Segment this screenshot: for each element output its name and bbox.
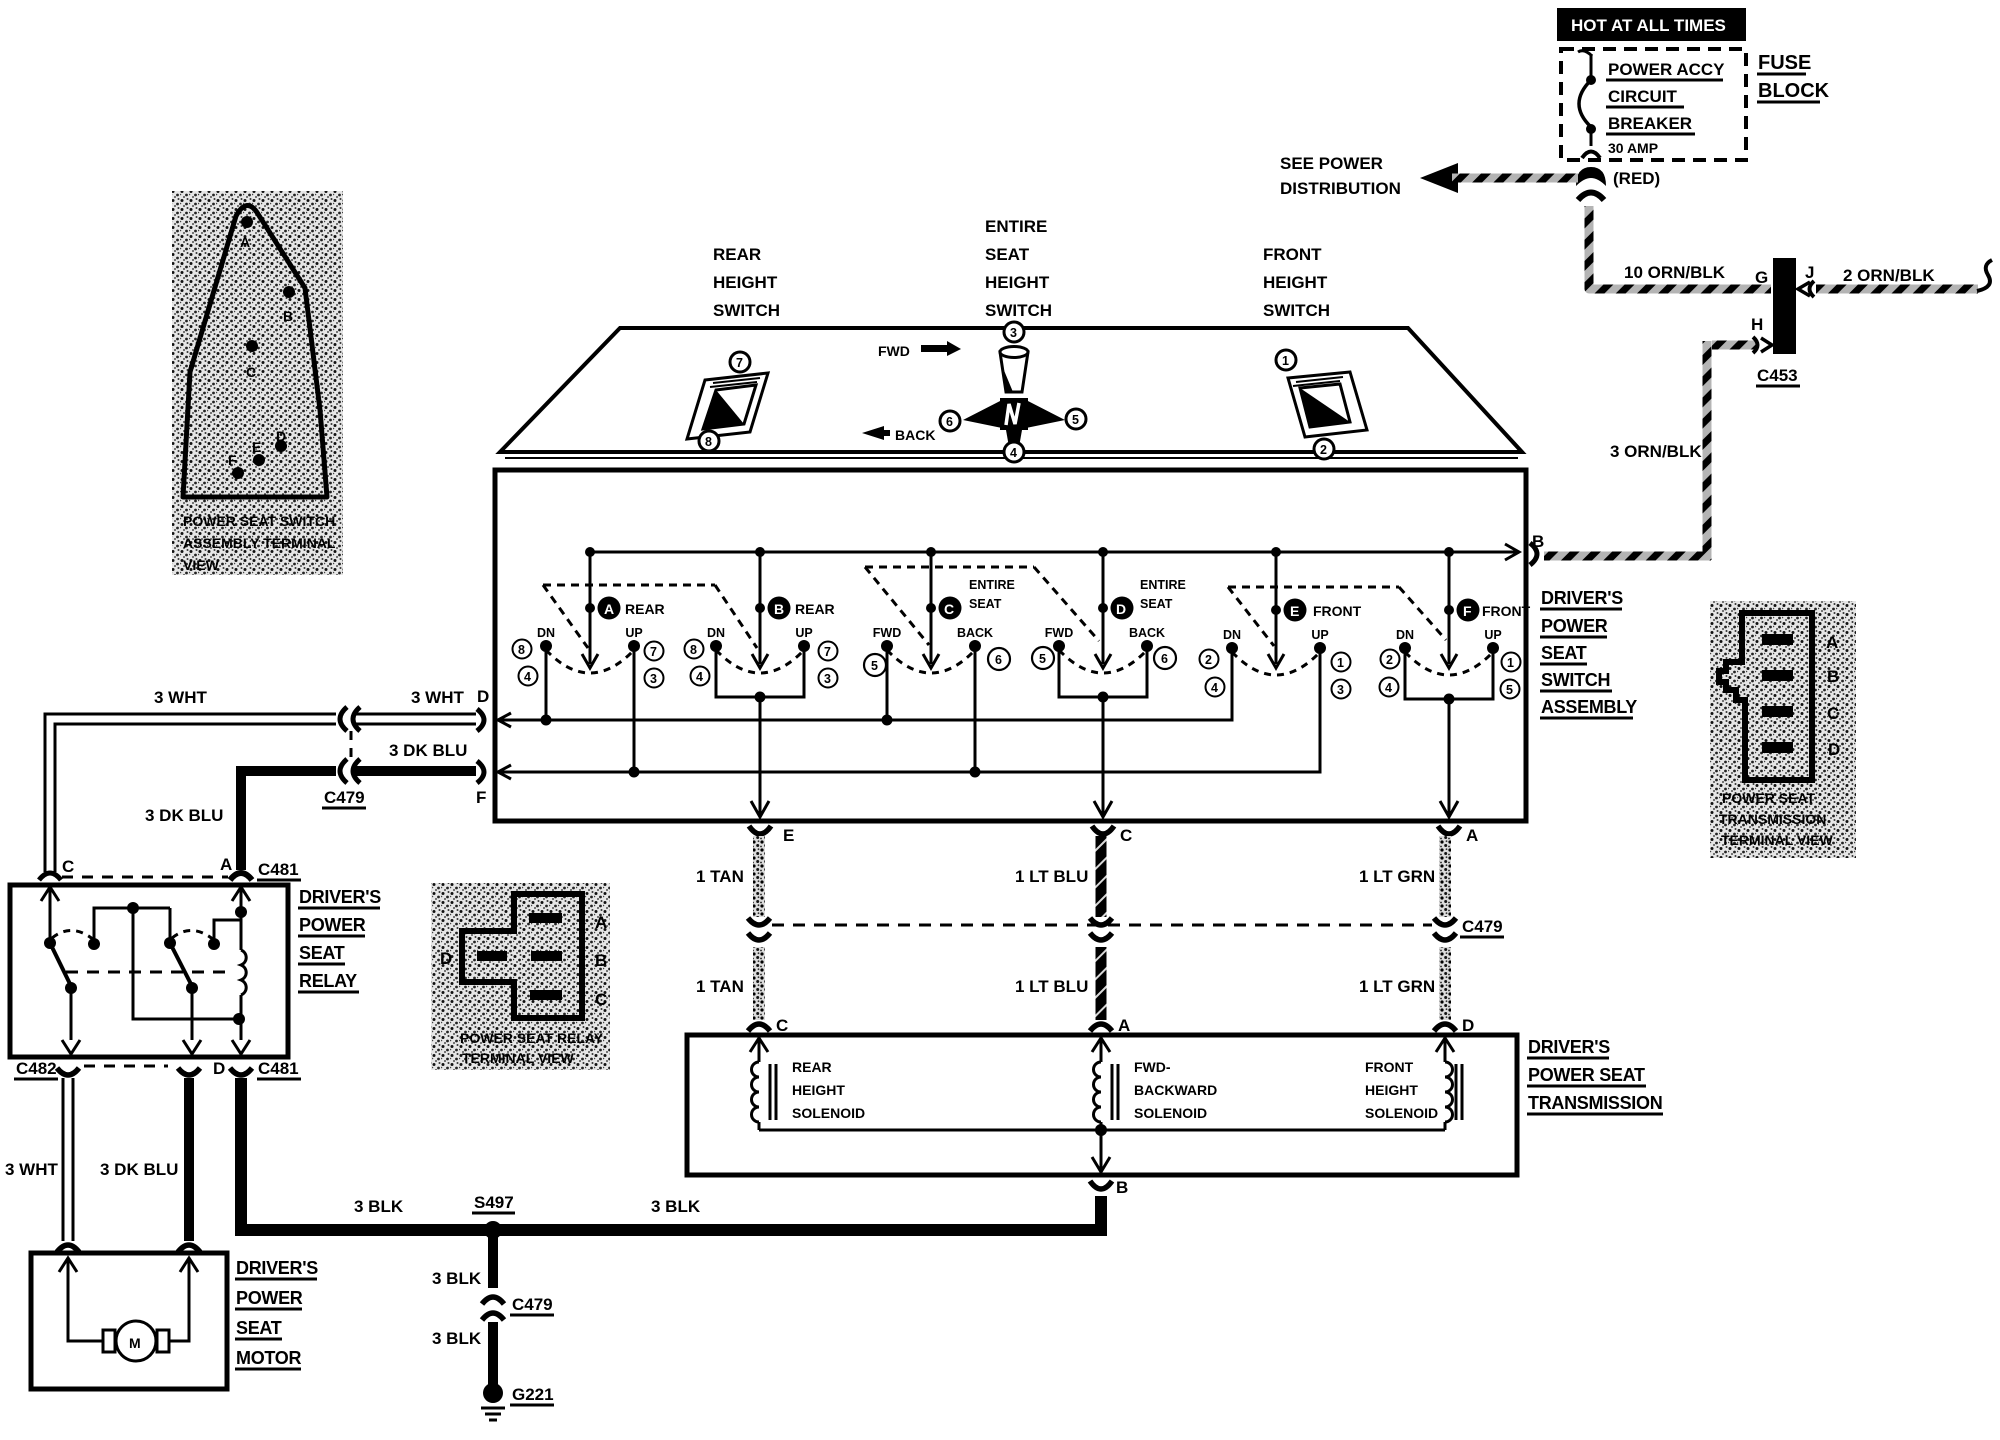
svg-text:CIRCUIT: CIRCUIT: [1608, 87, 1678, 106]
connector C at switch assembly bottom: [1092, 826, 1132, 845]
svg-text:MOTOR: MOTOR: [236, 1348, 301, 1368]
caption power seat transmission terminal view: [1719, 790, 1834, 848]
connector A at transmission top: [1090, 1016, 1130, 1052]
svg-text:E: E: [783, 826, 794, 845]
relay terminal D: [440, 949, 507, 968]
linkage dashed entire seat: [865, 567, 1099, 645]
connector (RED) at breaker output: [1576, 167, 1660, 200]
switch C entire seat: [873, 547, 1015, 778]
hot at all times banner: [1557, 8, 1746, 41]
svg-text:SWITCH: SWITCH: [713, 301, 780, 320]
svg-text:G: G: [1755, 268, 1768, 287]
svg-text:FRONT: FRONT: [1482, 603, 1531, 619]
svg-text:J: J: [1805, 263, 1814, 282]
svg-text:ENTIRE: ENTIRE: [1140, 578, 1186, 592]
connector C479 dashed tie line: [772, 924, 1432, 927]
svg-text:5: 5: [1072, 413, 1079, 427]
svg-text:2: 2: [1386, 653, 1393, 667]
svg-text:1: 1: [1282, 354, 1289, 368]
svg-text:6: 6: [995, 653, 1002, 667]
svg-text:C453: C453: [1757, 366, 1798, 385]
svg-text:TRANSMISSION: TRANSMISSION: [1719, 811, 1826, 827]
svg-text:SWITCH: SWITCH: [1541, 670, 1610, 690]
circled 5 on top face: [1066, 409, 1086, 429]
front height solenoid: [1365, 1038, 1462, 1130]
svg-text:8: 8: [518, 643, 525, 657]
relay terminal C: [530, 990, 607, 1009]
driver's power seat transmission box: [687, 1035, 1517, 1175]
svg-text:FUSE: FUSE: [1758, 52, 1811, 74]
svg-text:POWER SEAT RELAY: POWER SEAT RELAY: [460, 1030, 604, 1046]
svg-text:(RED): (RED): [1613, 169, 1660, 188]
svg-text:3: 3: [824, 672, 831, 686]
svg-text:A: A: [604, 601, 614, 617]
svg-text:BACK: BACK: [895, 427, 935, 443]
wire to power distribution with arrow: [1420, 163, 1578, 193]
svg-text:C: C: [246, 364, 256, 380]
connector C479 on 3 DK BLU wire: [322, 731, 366, 808]
wire W1 to terminal D: [498, 652, 1232, 727]
svg-text:C: C: [1827, 704, 1839, 723]
switch assembly top face: [500, 328, 1522, 458]
svg-text:DRIVER'S: DRIVER'S: [1528, 1037, 1610, 1057]
svg-text:4: 4: [1385, 681, 1392, 695]
switch A rear: [537, 547, 665, 778]
svg-text:D: D: [1828, 740, 1840, 759]
svg-text:A: A: [240, 234, 250, 250]
svg-text:TERMINAL VIEW: TERMINAL VIEW: [462, 1050, 575, 1066]
svg-text:POWER SEAT SWITCH: POWER SEAT SWITCH: [183, 513, 335, 529]
svg-text:3 DK BLU: 3 DK BLU: [389, 741, 467, 760]
connector A at switch assembly bottom: [1438, 826, 1478, 845]
wire 3 BLK from relay D to S497: [241, 1078, 1101, 1230]
svg-text:3 BLK: 3 BLK: [651, 1197, 701, 1216]
svg-text:4: 4: [524, 670, 531, 684]
svg-text:POWER: POWER: [299, 915, 366, 935]
motor M: [68, 1258, 189, 1361]
svg-text:POWER SEAT: POWER SEAT: [1722, 790, 1816, 806]
svg-text:FWD-: FWD-: [1134, 1059, 1171, 1075]
relay switch 1: [44, 887, 94, 1054]
splice S497: [472, 1193, 515, 1239]
svg-text:A: A: [220, 855, 232, 874]
connector D at switch assembly left edge: [477, 687, 489, 731]
label front height switch: [1263, 245, 1330, 320]
power seat relay terminal view inset background: [431, 883, 610, 1070]
label entire seat height switch: [985, 217, 1052, 320]
svg-text:1 LT BLU: 1 LT BLU: [1015, 867, 1088, 886]
svg-text:SEAT: SEAT: [299, 943, 345, 963]
connector F at switch assembly left edge: [476, 761, 486, 807]
connector C479 on lt grn wire: [1434, 917, 1504, 940]
svg-text:BACKWARD: BACKWARD: [1134, 1082, 1217, 1098]
switch F circled pins 2 4 1 5: [1380, 650, 1521, 699]
svg-text:C: C: [944, 601, 954, 617]
switch D circled pins 5 6: [1032, 647, 1176, 669]
rear height rocker switch: [687, 373, 768, 439]
svg-text:DN: DN: [707, 626, 725, 640]
wire 3 WHT from relay to motor: [5, 1078, 68, 1241]
switch D entire seat: [1045, 547, 1186, 817]
svg-text:SOLENOID: SOLENOID: [1365, 1105, 1438, 1121]
svg-text:H: H: [1751, 315, 1763, 334]
driver's power seat motor box: [31, 1253, 227, 1389]
relay terminal A: [529, 913, 607, 932]
terminal B: [283, 286, 295, 324]
connector C at transmission top: [748, 1016, 788, 1052]
circled 7 on top face: [730, 352, 750, 372]
svg-text:SEAT: SEAT: [236, 1318, 282, 1338]
svg-text:7: 7: [736, 356, 743, 370]
rear height solenoid: [752, 1038, 866, 1130]
svg-text:4: 4: [696, 670, 703, 684]
front height rocker switch: [1288, 372, 1367, 437]
wire 1 TAN lower: [696, 947, 759, 1020]
svg-text:ENTIRE: ENTIRE: [969, 578, 1015, 592]
svg-text:2: 2: [1320, 443, 1327, 457]
relay switch 1 fixed contact wiring: [88, 902, 238, 1019]
wire 3 ORN/BLK from H to switch assembly B: [1544, 315, 1772, 560]
svg-text:SEAT: SEAT: [1140, 597, 1173, 611]
terminal C: [246, 340, 258, 380]
svg-text:SOLENOID: SOLENOID: [1134, 1105, 1207, 1121]
connector D at transmission top: [1434, 1016, 1474, 1052]
svg-text:D: D: [276, 428, 286, 444]
fwd arrow on top face: [878, 341, 961, 359]
wire 3 DK BLU from relay to motor: [100, 1078, 189, 1241]
svg-text:1 TAN: 1 TAN: [696, 977, 744, 996]
svg-text:6: 6: [1161, 652, 1168, 666]
svg-text:D: D: [477, 687, 489, 706]
switch F front: [1396, 547, 1531, 817]
svg-text:30 AMP: 30 AMP: [1608, 140, 1658, 156]
svg-text:FWD: FWD: [878, 343, 910, 359]
connector B at switch assembly edge: [1530, 532, 1544, 565]
caption power seat switch assembly terminal view: [183, 513, 336, 573]
svg-text:TERMINAL VIEW: TERMINAL VIEW: [1721, 832, 1834, 848]
svg-text:SWITCH: SWITCH: [985, 301, 1052, 320]
svg-text:8: 8: [705, 435, 712, 449]
connector D C481 at relay bottom: [213, 1059, 301, 1079]
svg-text:C482: C482: [16, 1059, 57, 1078]
connector C482 at relay bottom: [14, 1059, 200, 1079]
connector C479 on tan wire: [748, 918, 770, 940]
svg-text:D: D: [1462, 1016, 1474, 1035]
svg-text:TRANSMISSION: TRANSMISSION: [1528, 1093, 1662, 1113]
label 3 DK BLU right: [389, 741, 467, 760]
svg-text:D: D: [440, 949, 452, 968]
circled 8 on top face: [699, 431, 719, 451]
switch A circled pins 8 4 7 3: [513, 640, 664, 688]
svg-text:BLOCK: BLOCK: [1758, 80, 1830, 102]
connector C479 on 3 WHT wire: [340, 707, 360, 731]
caption power seat relay terminal view: [460, 1030, 604, 1066]
svg-text:SEAT: SEAT: [985, 245, 1030, 264]
svg-text:ASSEMBLY TERMINAL: ASSEMBLY TERMINAL: [183, 535, 336, 551]
svg-text:F: F: [1463, 603, 1472, 619]
svg-text:3 DK BLU: 3 DK BLU: [100, 1160, 178, 1179]
circled 6 on top face: [940, 411, 960, 431]
svg-text:UP: UP: [1311, 628, 1328, 642]
joystick knob: [1000, 347, 1028, 393]
svg-text:C: C: [1120, 826, 1132, 845]
svg-text:3 DK BLU: 3 DK BLU: [145, 806, 223, 825]
terminal E: [252, 439, 265, 466]
svg-text:POWER ACCY: POWER ACCY: [1608, 60, 1725, 79]
svg-text:3 BLK: 3 BLK: [354, 1197, 404, 1216]
svg-text:POWER: POWER: [236, 1288, 303, 1308]
svg-text:F: F: [228, 452, 237, 468]
transmission terminal A: [1762, 633, 1838, 652]
svg-text:2 ORN/BLK: 2 ORN/BLK: [1843, 266, 1935, 285]
relay coil: [232, 887, 250, 1054]
svg-text:3: 3: [650, 672, 657, 686]
wire 3 DK BLU from terminal F to relay A: [241, 771, 476, 870]
svg-text:2: 2: [1205, 653, 1212, 667]
connector C479 on lt blu wire: [1090, 918, 1112, 940]
terminal A: [240, 216, 253, 250]
wire 3 BLK from S497 to C479: [432, 1236, 493, 1288]
svg-text:B: B: [283, 308, 293, 324]
svg-text:M: M: [129, 1335, 141, 1351]
wire 1 LT BLU lower: [1015, 947, 1101, 1020]
svg-text:D: D: [213, 1059, 225, 1078]
svg-text:FRONT: FRONT: [1365, 1059, 1414, 1075]
svg-text:VIEW: VIEW: [183, 557, 220, 573]
wire 1 TAN upper: [696, 836, 759, 917]
svg-text:HEIGHT: HEIGHT: [792, 1082, 845, 1098]
svg-text:SOLENOID: SOLENOID: [792, 1105, 865, 1121]
svg-text:DRIVER'S: DRIVER'S: [1541, 588, 1623, 608]
power seat switch assembly terminal view connector outline: [183, 205, 327, 497]
svg-text:UP: UP: [1484, 628, 1501, 642]
back arrow on top face: [862, 426, 935, 443]
svg-text:B: B: [595, 951, 607, 970]
connector C479 to ground: [482, 1295, 554, 1320]
svg-text:1 LT GRN: 1 LT GRN: [1359, 977, 1435, 996]
svg-text:HEIGHT: HEIGHT: [713, 273, 778, 292]
switch B circled pins 8 4 7 3: [685, 640, 838, 688]
relay dashed actuator line: [66, 971, 234, 974]
svg-text:3: 3: [1337, 683, 1344, 697]
svg-text:HEIGHT: HEIGHT: [1263, 273, 1328, 292]
svg-text:DRIVER'S: DRIVER'S: [236, 1258, 318, 1278]
svg-text:DN: DN: [1223, 628, 1241, 642]
switch E circled pins 2 4 1 3: [1200, 650, 1351, 699]
svg-text:6: 6: [946, 415, 953, 429]
label driver's power seat switch assembly: [1540, 588, 1637, 718]
switch E front: [1223, 547, 1362, 675]
svg-text:3: 3: [1010, 326, 1017, 340]
transmission terminal C: [1762, 704, 1839, 723]
svg-text:8: 8: [690, 643, 697, 657]
svg-text:SEE POWER: SEE POWER: [1280, 154, 1383, 173]
svg-text:1 TAN: 1 TAN: [696, 867, 744, 886]
label rear height switch: [713, 245, 780, 320]
linkage dashed rear height: [543, 585, 757, 648]
svg-text:C: C: [595, 990, 607, 1009]
connector A C481 at relay top: [62, 855, 301, 901]
connector E at switch assembly bottom: [749, 826, 794, 845]
wire 1 LT GRN lower: [1359, 947, 1445, 1020]
switch C circled pins 5 6: [864, 648, 1010, 676]
svg-text:C: C: [776, 1016, 788, 1035]
svg-text:C481: C481: [258, 1059, 299, 1078]
svg-text:HEIGHT: HEIGHT: [1365, 1082, 1418, 1098]
svg-text:DN: DN: [537, 626, 555, 640]
circled 4 on top face: [1004, 442, 1024, 462]
svg-text:E: E: [1290, 603, 1299, 619]
wire W2 to terminal F: [498, 652, 1320, 779]
svg-text:HEIGHT: HEIGHT: [985, 273, 1050, 292]
svg-text:POWER SEAT: POWER SEAT: [1528, 1065, 1645, 1085]
svg-text:REAR: REAR: [795, 601, 835, 617]
svg-text:1 LT BLU: 1 LT BLU: [1015, 977, 1088, 996]
svg-text:ENTIRE: ENTIRE: [985, 217, 1047, 236]
connector C482 at motor top left: [57, 1245, 79, 1272]
label 3 WHT right: [411, 688, 465, 707]
svg-text:FWD: FWD: [1045, 626, 1073, 640]
fuse block dashed box: [1561, 49, 1746, 160]
svg-text:4: 4: [1010, 446, 1017, 460]
svg-text:SWITCH: SWITCH: [1263, 301, 1330, 320]
svg-text:SEAT: SEAT: [1541, 643, 1587, 663]
label driver's power seat relay: [298, 887, 381, 992]
svg-text:3 WHT: 3 WHT: [5, 1160, 59, 1179]
svg-text:REAR: REAR: [625, 601, 665, 617]
connector C482 at motor top right: [178, 1245, 200, 1272]
svg-text:REAR: REAR: [792, 1059, 832, 1075]
svg-text:C: C: [62, 857, 74, 876]
svg-text:DN: DN: [1396, 628, 1414, 642]
relay switch 2 fixed contact wiring: [208, 920, 240, 950]
svg-text:5: 5: [1039, 652, 1046, 666]
svg-text:DRIVER'S: DRIVER'S: [299, 887, 381, 907]
svg-text:ASSEMBLY: ASSEMBLY: [1541, 697, 1637, 717]
svg-text:POWER: POWER: [1541, 616, 1608, 636]
svg-text:G221: G221: [512, 1385, 554, 1404]
bus wire inside switch assembly: [590, 544, 1519, 560]
svg-text:B: B: [1827, 667, 1839, 686]
joystick four-way pad: [963, 398, 1065, 447]
svg-text:A: A: [595, 913, 607, 932]
svg-text:REAR: REAR: [713, 245, 761, 264]
svg-text:C479: C479: [324, 788, 365, 807]
svg-text:A: A: [1826, 633, 1838, 652]
svg-text:3 ORN/BLK: 3 ORN/BLK: [1610, 442, 1702, 461]
terminal D: [275, 428, 287, 452]
wire 3 WHT from terminal D to relay C: [50, 719, 476, 872]
svg-text:C479: C479: [512, 1295, 553, 1314]
svg-text:3 BLK: 3 BLK: [432, 1269, 482, 1288]
wire 3 BLK from C479 to G221: [432, 1322, 493, 1388]
svg-text:BREAKER: BREAKER: [1608, 114, 1692, 133]
svg-text:7: 7: [650, 645, 657, 659]
wire 10 ORN/BLK vertical from breaker: [1589, 206, 1771, 289]
circled 3 on top face: [1004, 322, 1024, 342]
svg-text:B: B: [1116, 1178, 1128, 1197]
power seat transmission terminal view connector outline: [1719, 613, 1812, 780]
connector B at transmission bottom: [1090, 1178, 1128, 1197]
relay terminal B: [531, 951, 607, 970]
power seat switch assembly terminal view inset background: [172, 191, 343, 575]
svg-text:1: 1: [1337, 656, 1344, 670]
svg-text:FRONT: FRONT: [1263, 245, 1322, 264]
ground G221: [481, 1383, 554, 1420]
label driver's power seat transmission: [1527, 1037, 1663, 1114]
wire 1 LT BLU upper: [1015, 836, 1101, 917]
svg-text:A: A: [1118, 1016, 1130, 1035]
svg-text:1 LT GRN: 1 LT GRN: [1359, 867, 1435, 886]
label fuse block: [1757, 52, 1830, 102]
svg-text:3 WHT: 3 WHT: [411, 688, 465, 707]
wire 2 ORN/BLK: [1798, 260, 1992, 297]
svg-text:S497: S497: [474, 1193, 514, 1212]
power seat relay terminal view connector outline: [462, 894, 582, 1018]
svg-text:C479: C479: [1462, 917, 1503, 936]
svg-text:B: B: [774, 601, 784, 617]
svg-text:4: 4: [1211, 681, 1218, 695]
svg-text:FRONT: FRONT: [1313, 603, 1362, 619]
relay switch 2: [164, 908, 214, 1054]
circled 1 on top face: [1276, 350, 1296, 370]
svg-text:10 ORN/BLK: 10 ORN/BLK: [1624, 263, 1726, 282]
svg-text:FWD: FWD: [873, 626, 901, 640]
driver's power seat relay box: [10, 885, 288, 1057]
label power accy circuit breaker 30 amp: [1606, 60, 1725, 156]
svg-text:3 WHT: 3 WHT: [154, 688, 208, 707]
circled 2 on top face: [1314, 439, 1334, 459]
svg-text:UP: UP: [625, 626, 642, 640]
svg-text:7: 7: [824, 645, 831, 659]
linkage dashed front height: [1228, 587, 1446, 646]
connector C453 black block: [1755, 258, 1814, 386]
svg-text:DISTRIBUTION: DISTRIBUTION: [1280, 179, 1401, 198]
svg-text:F: F: [476, 788, 486, 807]
driver's power seat switch assembly box: [495, 470, 1526, 821]
svg-text:1: 1: [1507, 656, 1514, 670]
svg-text:C481: C481: [258, 860, 299, 879]
svg-text:E: E: [252, 439, 261, 455]
svg-text:A: A: [1466, 826, 1478, 845]
label 3 DK BLU left: [145, 806, 223, 825]
switch B rear: [707, 547, 835, 817]
svg-text:D: D: [1116, 601, 1126, 617]
transmission terminal B: [1762, 667, 1839, 686]
transmission terminal D: [1762, 740, 1840, 759]
power seat transmission terminal view inset background: [1710, 601, 1856, 858]
svg-text:BACK: BACK: [1129, 626, 1165, 640]
label see power distribution: [1280, 154, 1401, 198]
label driver's power seat motor: [235, 1258, 318, 1369]
svg-text:UP: UP: [795, 626, 812, 640]
svg-text:RELAY: RELAY: [299, 971, 357, 991]
svg-text:HOT AT ALL TIMES: HOT AT ALL TIMES: [1571, 16, 1726, 35]
svg-text:B: B: [1532, 532, 1544, 551]
svg-text:SEAT: SEAT: [969, 597, 1002, 611]
connector C at relay top: [39, 857, 74, 901]
terminal F: [228, 452, 244, 479]
svg-text:3 BLK: 3 BLK: [432, 1329, 482, 1348]
circuit breaker symbol: [1578, 51, 1600, 158]
wire 1 LT GRN upper: [1359, 836, 1445, 917]
transmission internal bus to B: [759, 1124, 1445, 1172]
svg-text:BACK: BACK: [957, 626, 993, 640]
fwd-backward solenoid: [1094, 1038, 1218, 1130]
svg-text:5: 5: [1506, 683, 1513, 697]
label 3 WHT left: [154, 688, 208, 707]
svg-text:5: 5: [871, 659, 878, 673]
